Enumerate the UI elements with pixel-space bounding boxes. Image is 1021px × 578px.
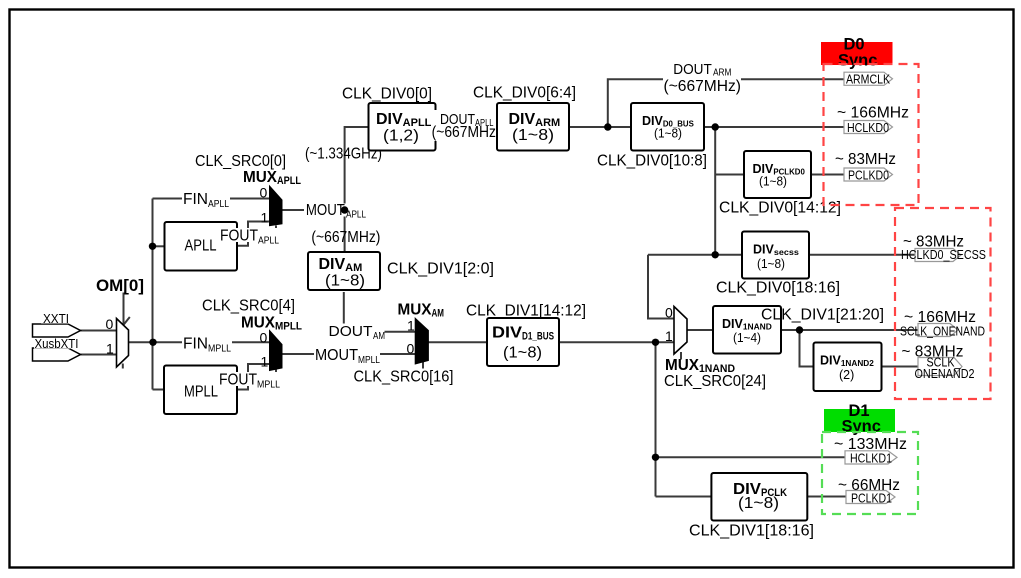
svg-text:(1~8): (1~8) [503, 345, 542, 362]
output port ARMCLK [844, 72, 893, 87]
wire OM mux bottom stub [122, 364, 124, 369]
wire MUX_AM output to DIV_D1_BUS [429, 341, 488, 343]
wire APLL FOUT to MUX_APLL input 1 [237, 222, 270, 246]
wire FIN_APLL to MUX_APLL input 0 [153, 198, 270, 200]
divider DIV_PCLK [711, 473, 807, 521]
SECSS/ONENAND dashed region (red) [895, 208, 991, 399]
svg-text:1: 1 [261, 210, 269, 226]
svg-text:MPLL: MPLL [257, 379, 280, 391]
node HCLKD0 junction [712, 123, 719, 130]
wire MUX_1NAND output to DIV_1NAND [687, 329, 713, 331]
svg-text:APLL: APLL [208, 198, 229, 210]
wire MPLL FOUT to MUX_MPLL input 1 [237, 364, 270, 390]
svg-text:~ 166MHz: ~ 166MHz [904, 309, 976, 326]
svg-text:CLK_DIV0[10:8]: CLK_DIV0[10:8] [597, 153, 707, 170]
input port XusbXTI [33, 337, 81, 361]
wire branch to DIV_PCLKD0 input [715, 174, 744, 176]
svg-text:(1~8): (1~8) [512, 127, 554, 144]
wire OM select line with tick [123, 293, 125, 327]
svg-text:ARM: ARM [713, 68, 732, 79]
label DOUT_AM [328, 324, 386, 343]
divider DIV_D1_BUS [487, 318, 559, 366]
svg-text:OM[0]: OM[0] [96, 277, 144, 295]
wire DIV_PCLK output to PCLKD1 [806, 496, 848, 498]
svg-text:CLK_DIV0[0]: CLK_DIV0[0] [342, 86, 432, 103]
wire DIV_ARM output to DIV_D0_BUS [569, 126, 631, 128]
svg-text:APLL: APLL [258, 235, 279, 247]
svg-text:(~667MHz): (~667MHz) [664, 78, 742, 95]
label FOUT_APLL [219, 228, 279, 247]
svg-text:MPLL: MPLL [184, 384, 218, 401]
svg-text:0: 0 [260, 330, 268, 346]
svg-text:~ 83MHz: ~ 83MHz [903, 234, 964, 251]
wire vertical trunk x=655.5 down to D1 domain [655, 342, 657, 496]
svg-text:0: 0 [665, 305, 673, 321]
wire down to MUX_1NAND input 0 [648, 255, 674, 319]
svg-text:(1,2): (1,2) [383, 128, 419, 145]
node DOUT_ARM junction [604, 123, 611, 130]
svg-text:ARMCLK: ARMCLK [846, 72, 890, 87]
svg-text:XusbXTI: XusbXTI [35, 337, 79, 351]
label DOUT_ARM [663, 60, 741, 94]
svg-text:(~667MHz): (~667MHz) [432, 124, 501, 141]
svg-text:Sync: Sync [838, 52, 877, 70]
svg-text:(1~8): (1~8) [738, 495, 779, 512]
svg-text:1: 1 [407, 318, 415, 334]
svg-text:(1~8): (1~8) [759, 175, 787, 189]
wire OM mux output to MUX_MPLL input 0 (FIN_MPLL net) [129, 341, 270, 343]
D1 sync dashed region (green) [822, 432, 918, 514]
label MOUT_MPLL [314, 347, 380, 366]
svg-text:~ 83MHz: ~ 83MHz [902, 344, 964, 361]
svg-text:(1~8): (1~8) [325, 273, 365, 290]
wire DIV_secss output to HCLKD0_SECSS [809, 254, 918, 256]
wire MOUT_MPLL to MUX_AM input 0 [282, 353, 415, 355]
svg-text:(~667MHz): (~667MHz) [311, 229, 380, 246]
svg-text:DOUT: DOUT [329, 324, 373, 340]
svg-text:PCLKD0: PCLKD0 [848, 168, 889, 183]
svg-text:CLK_SRC0[0]: CLK_SRC0[0] [195, 153, 286, 170]
svg-text:MPLL: MPLL [208, 343, 231, 355]
svg-text:MOUT: MOUT [306, 202, 345, 219]
svg-text:CLK_DIV1[21:20]: CLK_DIV1[21:20] [761, 307, 884, 324]
PLL APLL box [165, 222, 238, 271]
node HCLKD1 junction [652, 454, 659, 461]
output port PCLKD0 [844, 168, 893, 183]
wire down into DIV_1NAND2 [800, 330, 814, 367]
wire horizontal into DIV_secss [648, 254, 742, 256]
svg-text:~ 83MHz: ~ 83MHz [835, 151, 896, 168]
wire HCLKD1 branch [656, 456, 847, 458]
svg-text:FIN: FIN [183, 336, 208, 353]
node MOUT_APLL junction [341, 206, 348, 213]
wire MUX_APLL select stub [275, 226, 277, 234]
mux MUX_AM (black) [415, 318, 428, 364]
label FIN_APLL [182, 191, 230, 210]
wire DOUT_ARM up and right to ARMCLK [608, 79, 846, 127]
svg-text:CLK_SRC0[24]: CLK_SRC0[24] [664, 373, 766, 390]
wire MUX_APLL output MOUT_APLL [282, 209, 345, 211]
svg-text:HCLKD0: HCLKD0 [847, 120, 889, 135]
output port HCLKD0 [844, 120, 893, 135]
wire DIV_1NAND output to SCLK_ONENAND [781, 329, 918, 331]
wire DIV_PCLKD0 output to PCLKD0 [811, 174, 846, 176]
svg-text:CLK_SRC0[4]: CLK_SRC0[4] [202, 298, 295, 315]
divider DIV_PCLKD0 [744, 151, 811, 198]
svg-text:CLK_DIV1[2:0]: CLK_DIV1[2:0] [387, 261, 494, 278]
svg-text:(1~4): (1~4) [733, 331, 761, 345]
mux OM[0] (white trapezoid) [117, 319, 129, 368]
wire DOUT_AM to MUX_AM input 1 [344, 292, 415, 332]
svg-text:0: 0 [106, 316, 114, 332]
divider DIV_ARM [497, 103, 569, 151]
wire vertical trunk x=715.2 [714, 127, 716, 255]
wire MUX_1NAND select stub [680, 352, 682, 360]
wire branch into APLL input [153, 245, 165, 247]
mux MUX_MPLL (black) [270, 331, 283, 371]
svg-text:CLK_DIV0[18:16]: CLK_DIV0[18:16] [716, 280, 840, 297]
output port HCLKD0_SECSS [901, 247, 986, 262]
svg-text:XXTI: XXTI [43, 312, 69, 326]
svg-text:MPLL: MPLL [358, 354, 380, 366]
svg-text:FIN: FIN [183, 191, 208, 208]
wire MUX_AM select stub [422, 361, 424, 369]
node junction at DIV_SECSS input branch [712, 251, 719, 258]
label DOUT_APLL [431, 110, 501, 141]
D0 Sync header box (red) [821, 36, 893, 70]
wire MUX_MPLL select stub [275, 369, 277, 378]
PLL MPLL box [164, 366, 237, 415]
svg-text:(1~8): (1~8) [757, 257, 785, 271]
divider DIV_AM [308, 252, 380, 290]
D1 Sync header box (green) [824, 402, 895, 436]
divider DIV_APLL [369, 103, 436, 151]
svg-text:APLL: APLL [185, 238, 217, 255]
label FIN_MPLL [182, 336, 232, 355]
node FIN junction at OM mux output [149, 339, 156, 346]
node SCLK_ONENAND junction [796, 326, 803, 333]
mux MUX_1NAND (white trapezoid) [674, 307, 687, 355]
svg-text:1: 1 [261, 354, 269, 370]
divider DIV_1NAND [713, 306, 781, 354]
svg-text:1: 1 [106, 341, 114, 357]
svg-text:0: 0 [260, 185, 268, 201]
wire DIV_D0_BUS output to HCLKD0 [704, 126, 846, 128]
wire DIV_D1_BUS output to MUX_1NAND input 1 [559, 341, 674, 343]
label FOUT_MPLL [218, 372, 280, 391]
divider DIV_1NAND2 [814, 343, 882, 392]
divider DIV_D0_BUS [631, 103, 704, 151]
svg-text:1: 1 [665, 328, 673, 344]
output port SCLK_ONENAND [900, 324, 985, 339]
svg-text:~ 66MHz: ~ 66MHz [838, 477, 900, 494]
wire branch into MPLL input [153, 389, 165, 391]
output port HCLKD1 [845, 451, 897, 466]
wire DIV_APLL output DOUT_APLL to DIV_ARM [436, 126, 498, 128]
svg-text:~ 166MHz: ~ 166MHz [837, 105, 909, 122]
mux MUX_APLL (black) [270, 186, 283, 226]
svg-text:0: 0 [407, 341, 415, 357]
wire DIV_1NAND2 output to SCLK_ONENAND2 [882, 366, 919, 368]
svg-text:DOUT: DOUT [673, 62, 712, 78]
svg-text:CLK_DIV0[6:4]: CLK_DIV0[6:4] [473, 85, 576, 102]
svg-text:APLL: APLL [346, 209, 366, 221]
wire XXTI to OM mux [81, 330, 117, 332]
wire vertical trunk x=152.5 FIN net [152, 199, 154, 390]
output port SCLK_ONENAND2 [915, 355, 975, 382]
D0 sync dashed region (red) [824, 64, 919, 205]
divider DIV_SECSS [742, 232, 809, 279]
input port XXTI [33, 312, 81, 337]
svg-text:~ 133MHz: ~ 133MHz [834, 436, 907, 453]
svg-text:(1~8): (1~8) [654, 127, 682, 141]
svg-text:CLK_DIV1[18:16]: CLK_DIV1[18:16] [689, 523, 814, 540]
output port PCLKD1 [846, 491, 895, 506]
wire into DIV_PCLK [656, 496, 712, 498]
svg-text:FOUT: FOUT [219, 372, 257, 389]
node DOUT_D1_BUS junction [652, 339, 659, 346]
svg-text:CLK_DIV1[14:12]: CLK_DIV1[14:12] [466, 303, 586, 320]
wire XusbXTI to OM mux [81, 354, 117, 356]
svg-text:ONENAND2: ONENAND2 [915, 366, 975, 381]
svg-text:CLK_SRC0[16]: CLK_SRC0[16] [354, 369, 454, 386]
node junction at APLL input branch [149, 243, 156, 250]
svg-text:FOUT: FOUT [220, 228, 258, 245]
svg-text:AM: AM [373, 331, 385, 342]
svg-text:MOUT: MOUT [315, 347, 358, 364]
svg-text:(2): (2) [839, 368, 854, 382]
label MOUT_APLL [304, 202, 366, 221]
wire vertical MOUT to DIV_APLL and DIV_AM [345, 127, 369, 252]
